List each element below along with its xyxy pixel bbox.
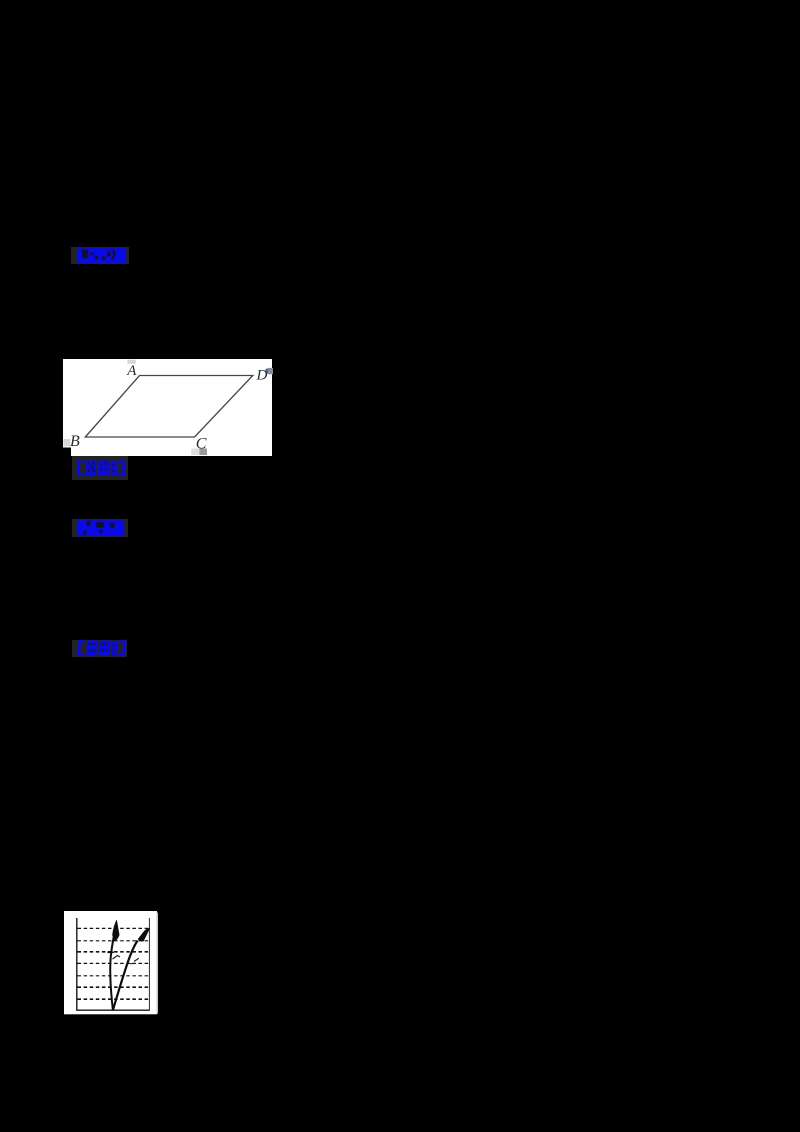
- tick on curve 1: [107, 951, 113, 953]
- svg-text:C: C: [196, 435, 207, 452]
- label [analysis] highlight background: [72, 456, 128, 480]
- label [answer] blue selected block: [77, 248, 126, 263]
- label [solution] highlight background: [72, 519, 128, 537]
- svg-text:B: B: [70, 433, 80, 450]
- gray handle above A: [127, 360, 135, 364]
- y axis: [76, 918, 78, 1010]
- svg-text:D: D: [256, 368, 268, 384]
- small flag on curve 1: [113, 956, 121, 960]
- figure: parallelogram ABCD: [63, 359, 273, 457]
- x axis: [76, 1009, 150, 1011]
- figure: time-distance graph: [64, 911, 159, 1015]
- right soft shadow edge: [157, 913, 159, 1014]
- arrowhead / blob curve 1: [112, 920, 119, 942]
- label [comment] blue glyphs: [77, 640, 126, 656]
- blue mark right of D: [266, 369, 268, 374]
- svg-text:A: A: [126, 363, 137, 379]
- white image background: [64, 911, 157, 1014]
- label [comment] highlight background: [72, 640, 127, 657]
- dashed gridlines: [78, 928, 150, 999]
- label [analysis] blue glyphs: [77, 460, 125, 476]
- gray handle left of B: [64, 439, 71, 446]
- right border: [148, 918, 150, 1010]
- notch black bottom-left: [63, 448, 71, 457]
- curve 1 (steep, left): [110, 925, 116, 1010]
- gray handles below C: [191, 449, 199, 455]
- parallelogram edges: [85, 376, 253, 438]
- small marks on curve 2: [134, 958, 139, 961]
- arrowhead / blob curve 2: [138, 928, 151, 942]
- label [answer] highlight background: [71, 247, 129, 264]
- white image background: [63, 359, 272, 456]
- label [solution] blue selected block: [77, 520, 124, 536]
- gray handle right of D: [268, 368, 273, 374]
- curve 2 (to upper right): [113, 941, 138, 1011]
